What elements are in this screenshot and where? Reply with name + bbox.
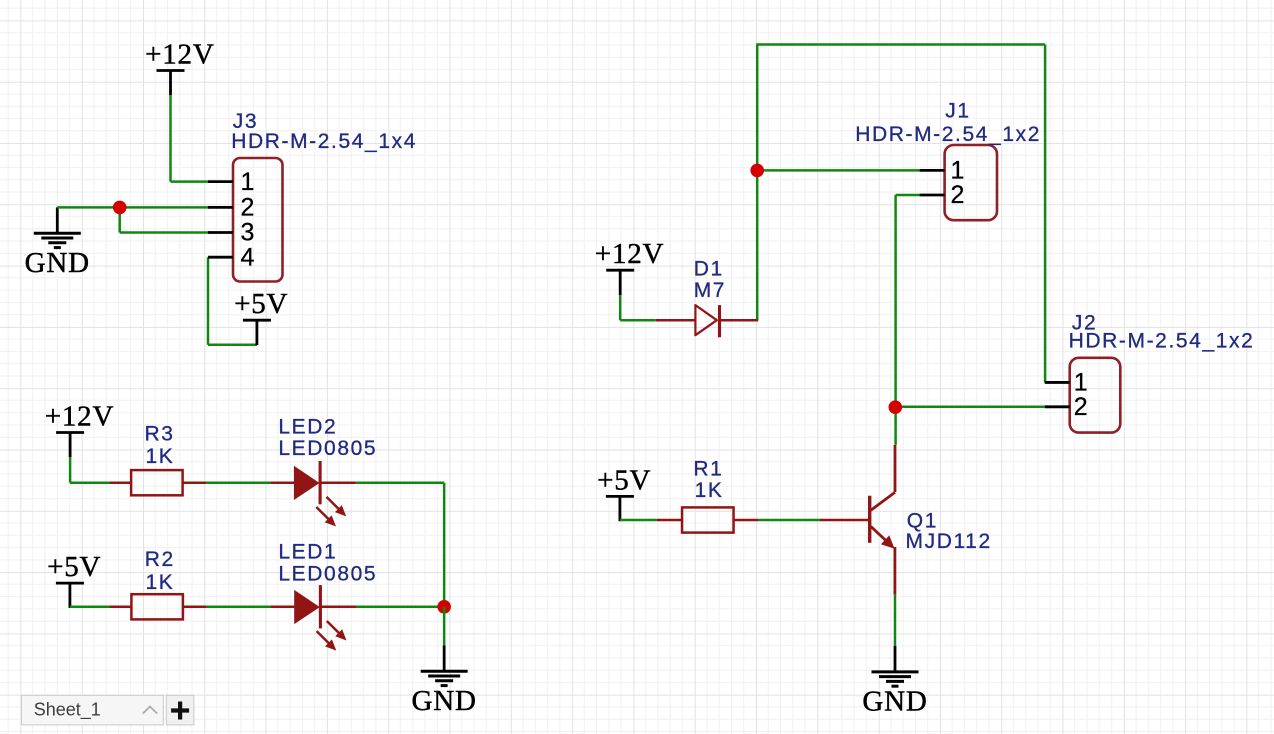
svg-text:LED1: LED1: [278, 541, 337, 564]
svg-text:1K: 1K: [146, 445, 175, 468]
svg-text:M7: M7: [694, 279, 726, 302]
svg-text:R2: R2: [145, 548, 175, 571]
svg-text:+5V: +5V: [597, 464, 651, 496]
svg-text:+5V: +5V: [234, 288, 288, 320]
svg-text:1: 1: [241, 168, 255, 196]
svg-text:LED0805: LED0805: [278, 437, 377, 460]
svg-text:GND: GND: [862, 686, 927, 718]
svg-text:1K: 1K: [695, 479, 724, 502]
svg-text:R3: R3: [145, 423, 175, 446]
svg-text:2: 2: [241, 194, 255, 222]
svg-text:+12V: +12V: [595, 238, 665, 270]
svg-text:D1: D1: [694, 257, 724, 280]
svg-text:+12V: +12V: [45, 401, 115, 433]
svg-text:HDR-M-2.54_1x4: HDR-M-2.54_1x4: [231, 130, 417, 153]
svg-text:LED2: LED2: [278, 416, 337, 439]
svg-text:MJD112: MJD112: [906, 530, 992, 553]
svg-text:LED0805: LED0805: [278, 563, 377, 586]
svg-text:GND: GND: [25, 247, 90, 279]
svg-text:Q1: Q1: [907, 509, 938, 532]
svg-text:J1: J1: [945, 100, 970, 123]
svg-text:+5V: +5V: [47, 551, 101, 583]
svg-text:4: 4: [241, 243, 255, 271]
svg-text:HDR-M-2.54_1x2: HDR-M-2.54_1x2: [1069, 329, 1255, 352]
svg-text:GND: GND: [412, 685, 477, 717]
svg-text:1K: 1K: [146, 571, 175, 594]
svg-text:HDR-M-2.54_1x2: HDR-M-2.54_1x2: [855, 123, 1041, 146]
svg-text:Sheet_1: Sheet_1: [34, 700, 101, 721]
svg-text:R1: R1: [693, 457, 723, 480]
svg-text:2: 2: [1074, 393, 1088, 421]
svg-text:+12V: +12V: [145, 39, 215, 71]
svg-text:2: 2: [951, 181, 965, 209]
